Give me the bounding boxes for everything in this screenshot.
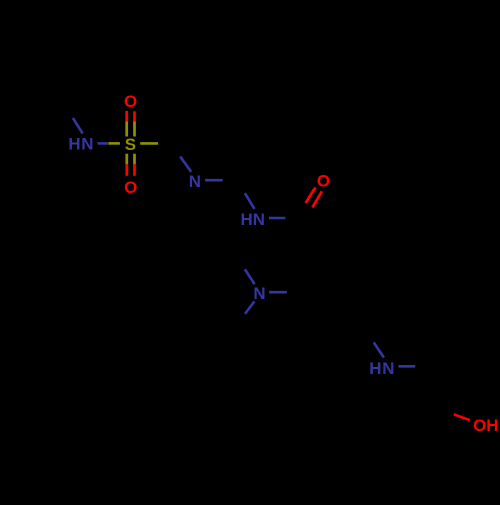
wire: bond S-C half (olive) bbox=[140, 142, 158, 145]
svg-text:N: N bbox=[253, 210, 265, 229]
wire: bond C-OH half (red diagonal, bottom right) bbox=[454, 414, 470, 420]
wire: bond N-S, N half (blue) bbox=[98, 142, 108, 145]
wire: bond C-NH(amide) half (blue diagonal) bbox=[245, 193, 255, 209]
svg-text:S: S bbox=[125, 135, 136, 154]
svg-text:H: H bbox=[369, 359, 381, 378]
svg-text:N: N bbox=[253, 284, 265, 303]
node HN sulfonamide label bbox=[68, 135, 93, 154]
wire: bond N-S, S half (olive) bbox=[108, 142, 120, 145]
wire: double bond S=O top, red halves bbox=[125, 111, 128, 122]
wire: double bond S=O bottom, red halves bbox=[125, 164, 128, 176]
svg-text:O: O bbox=[317, 172, 330, 191]
svg-text:H: H bbox=[68, 135, 80, 154]
wire: bond NH-C(=O) half (blue horizontal) bbox=[269, 217, 285, 220]
wire: bond C-N(ring) N half (blue diagonal) bbox=[180, 157, 191, 172]
svg-text:O: O bbox=[473, 416, 486, 435]
node OH label bbox=[473, 416, 498, 435]
wire: double bond S=O bottom, olive halves bbox=[125, 154, 128, 165]
node HN amide label bbox=[240, 210, 265, 229]
node HN bottom label bbox=[369, 359, 394, 378]
svg-text:N: N bbox=[382, 359, 394, 378]
svg-text:O: O bbox=[124, 92, 137, 111]
svg-text:N: N bbox=[189, 172, 201, 191]
wire: bond N-C half (blue horizontal) bbox=[205, 179, 223, 182]
wire: bond C-NH half (blue diagonal, bottom chain) bbox=[374, 343, 384, 358]
wire: double bond C=O red halves (diagonal) bbox=[306, 187, 316, 203]
svg-text:N: N bbox=[81, 135, 93, 154]
wire: bond C(ethyl)-N half (blue) top-left bbox=[73, 118, 83, 133]
wire: bond C-N(tert) half (blue diagonal upper-left) bbox=[245, 269, 255, 284]
wire: double bond S=O top, olive halves bbox=[125, 122, 128, 137]
svg-text:H: H bbox=[240, 210, 252, 229]
svg-text:O: O bbox=[124, 178, 137, 197]
wire: bond N-C half (blue horizontal right) bbox=[269, 291, 287, 294]
wire: bond N-CH3 half (blue diagonal lower-left) bbox=[245, 301, 254, 314]
svg-text:H: H bbox=[486, 416, 498, 435]
wire: bond NH-C half (blue horizontal, bottom) bbox=[398, 365, 415, 368]
